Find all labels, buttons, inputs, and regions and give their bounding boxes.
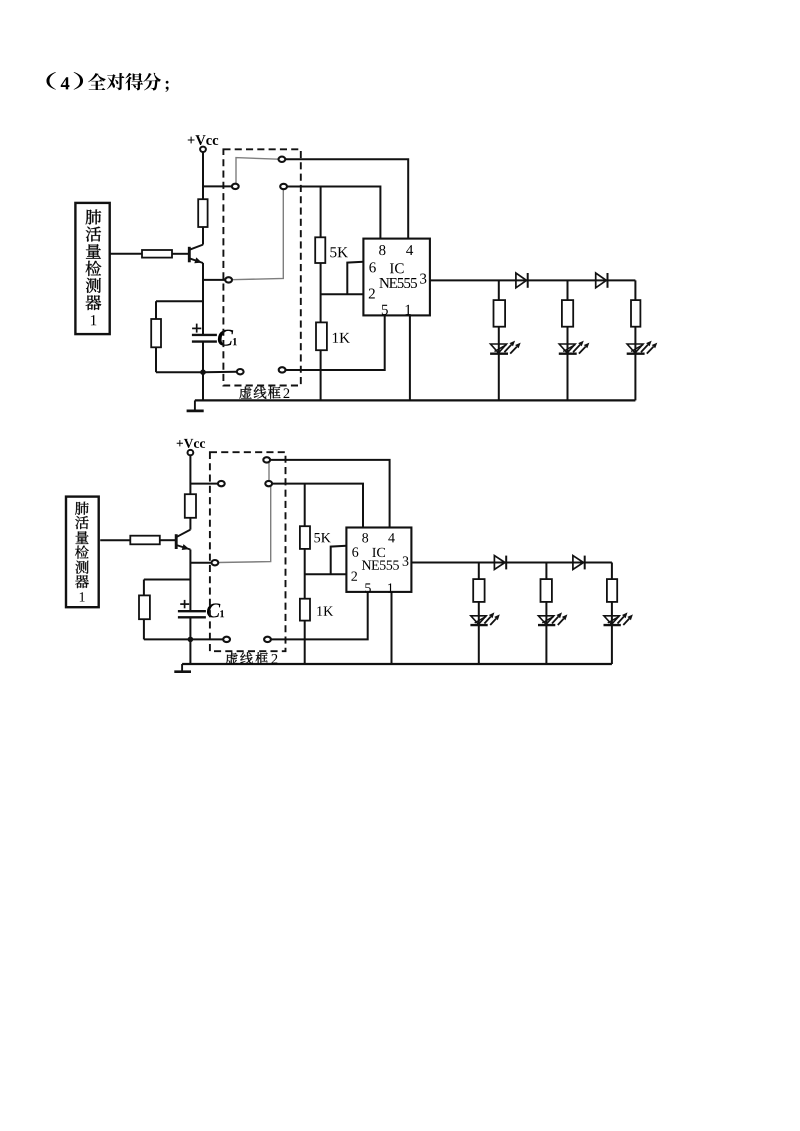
wire detector box to base resistor [110,253,142,255]
wire pin1 to ground rail (2) [391,592,393,664]
wire pin5 (2) [271,592,368,640]
value label 5K (2) [314,533,330,542]
wire capacitor to ground rail (2) [189,617,191,664]
wire capacitor to ground rail [202,342,204,401]
link wire terminal d to e (2) [218,487,271,563]
transistor Q1 [189,245,203,264]
caption text [46,72,168,92]
+Vcc label [188,135,219,145]
wire collector rail branch to terminal [203,185,232,187]
U2 pin 3 label [403,556,409,565]
U1 pin 4 label [406,245,413,255]
LED 1 [490,341,521,354]
wire LED branch 1 [498,280,500,400]
node terminal g [279,367,286,372]
wire emitter node [203,279,225,281]
resistor 1K R5 [316,322,327,350]
resistor 1K R10 [300,599,310,621]
wire terminal c to pin4 (2) [270,460,390,528]
wire LED branch 1 (2) [478,563,480,665]
bottom ground rail wire [195,399,636,401]
wire LED branch 2 [567,280,569,400]
wire terminal c to pin4 [285,159,408,238]
diode D1 [516,273,528,288]
resistor LED branch 1 (2) [473,579,484,602]
wire 5K 1K branch (2) [304,484,306,664]
diode D2 [596,273,608,288]
wire base resistor to base [172,253,188,255]
U1 pin 2 label [369,289,375,299]
U1 pin 1 label [406,305,411,315]
node terminal d (2) [265,481,272,486]
wire pin2 (2) [305,573,347,575]
wire left branch vertical [155,301,157,372]
detector box 1 (2) [66,497,99,608]
wire left branch bottom [156,371,203,373]
value label 5K [330,247,348,257]
wire pin6 stub (2) [331,546,347,575]
diode D1 (2) [494,556,506,570]
label C1 (2) [207,603,224,617]
diode D2 (2) [573,556,585,570]
U1 pin 5 label [382,305,388,315]
node terminal f (2) [223,637,230,642]
U2 pin 6 label [352,547,358,556]
node terminal b [232,184,239,189]
Vcc terminal (2) [188,450,194,455]
wire terminal d to pin8 [287,187,380,239]
node terminal d [280,184,287,189]
resistor emitter R8 [139,595,150,619]
node terminal e (2) [212,560,219,565]
junction node [200,369,206,375]
value label 1K (2) [317,606,333,615]
resistor LED branch 3 (2) [607,579,617,602]
U1 pin 8 label [379,245,385,255]
resistor collector R1 [198,199,207,227]
value label 1K [333,333,350,343]
U2 pin 8 label [362,533,368,542]
wire junction to terminal (2) [190,638,223,640]
U2 pin 4 label [388,533,394,542]
node terminal c (2) [263,457,270,462]
link wire terminal d to e [232,189,283,279]
wire Vcc to collector (2) [189,455,191,529]
LED 3 (2) [604,612,633,625]
label C1 [218,330,237,346]
resistor 5K R9 [300,526,310,549]
dashed box 2 (top circuit) [223,149,300,385]
LED 2 [559,341,590,354]
U1 pin 3 label [420,274,426,284]
node terminal b (2) [218,481,225,486]
dashed box 2 (bottom circuit) [210,452,286,651]
resistor base R7 [130,536,160,545]
resistor base R2 [142,250,172,258]
wire emitter node (2) [190,562,211,564]
dashed box label (2) [226,652,278,664]
U1 pin 6 label [369,262,375,272]
capacitor C1 [192,324,217,342]
resistor LED branch 2 (2) [541,579,552,602]
Vcc terminal [200,147,206,152]
wire 5K 1K branch [320,187,322,401]
LED 2 (2) [538,612,567,625]
wire pin2 [321,293,364,295]
ground [187,400,204,411]
resistor LED branch 1 [494,300,506,327]
wire pin3 output [430,279,635,281]
wire pin6 stub [347,262,363,294]
transistor Q2 [176,530,190,550]
node terminal c [279,157,286,162]
wire left branch top (2) [144,579,191,581]
LED 3 [627,341,658,354]
wire pin3 output (2) [411,562,612,564]
resistor emitter R3 [151,319,161,347]
link wire terminal c to d (2) [268,463,270,481]
IC U1 NE555 body [363,239,430,316]
wire emitter to capacitor (2) [189,550,191,612]
U2 pin 2 label [351,572,357,581]
+Vcc label (2) [177,439,205,448]
bottom ground rail wire (2) [182,663,612,665]
wire emitter to capacitor [202,263,204,335]
node terminal e [225,277,232,282]
U2 pin 5 label [365,583,371,592]
wire pin1 to ground rail [409,315,411,400]
wire terminal d to pin8 (2) [272,484,363,528]
wire left branch top [156,300,203,302]
wire collector branch to terminal (2) [190,483,217,485]
dashed box label [239,386,289,398]
wire left branch bottom (2) [144,638,191,640]
ground (2) [174,664,191,672]
wire left branch vertical (2) [143,580,145,640]
wire pin5 [286,315,385,370]
U2 pin 1 label [388,583,393,592]
resistor LED branch 2 [562,300,573,327]
wire LED branch 3 [634,280,636,400]
detector box 1 [75,203,109,334]
capacitor C1 (2) [178,600,206,617]
wire LED branch 2 (2) [545,563,547,665]
wire Vcc to collector [202,152,204,244]
LED 1 (2) [470,612,499,625]
wire base resistor to base (2) [160,539,175,541]
wire detector box to base resistor (2) [100,539,130,541]
wire LED branch 3 (2) [611,563,613,665]
wire junction to terminal [203,371,237,374]
resistor collector R6 [185,494,196,518]
resistor LED branch 3 [631,300,640,327]
node terminal f [237,369,244,374]
node terminal g (2) [264,637,271,642]
junction node (2) [188,637,194,643]
IC U2 NE555 body [346,528,411,592]
resistor 5K R4 [315,237,325,263]
link wire terminal c to b [236,158,279,184]
